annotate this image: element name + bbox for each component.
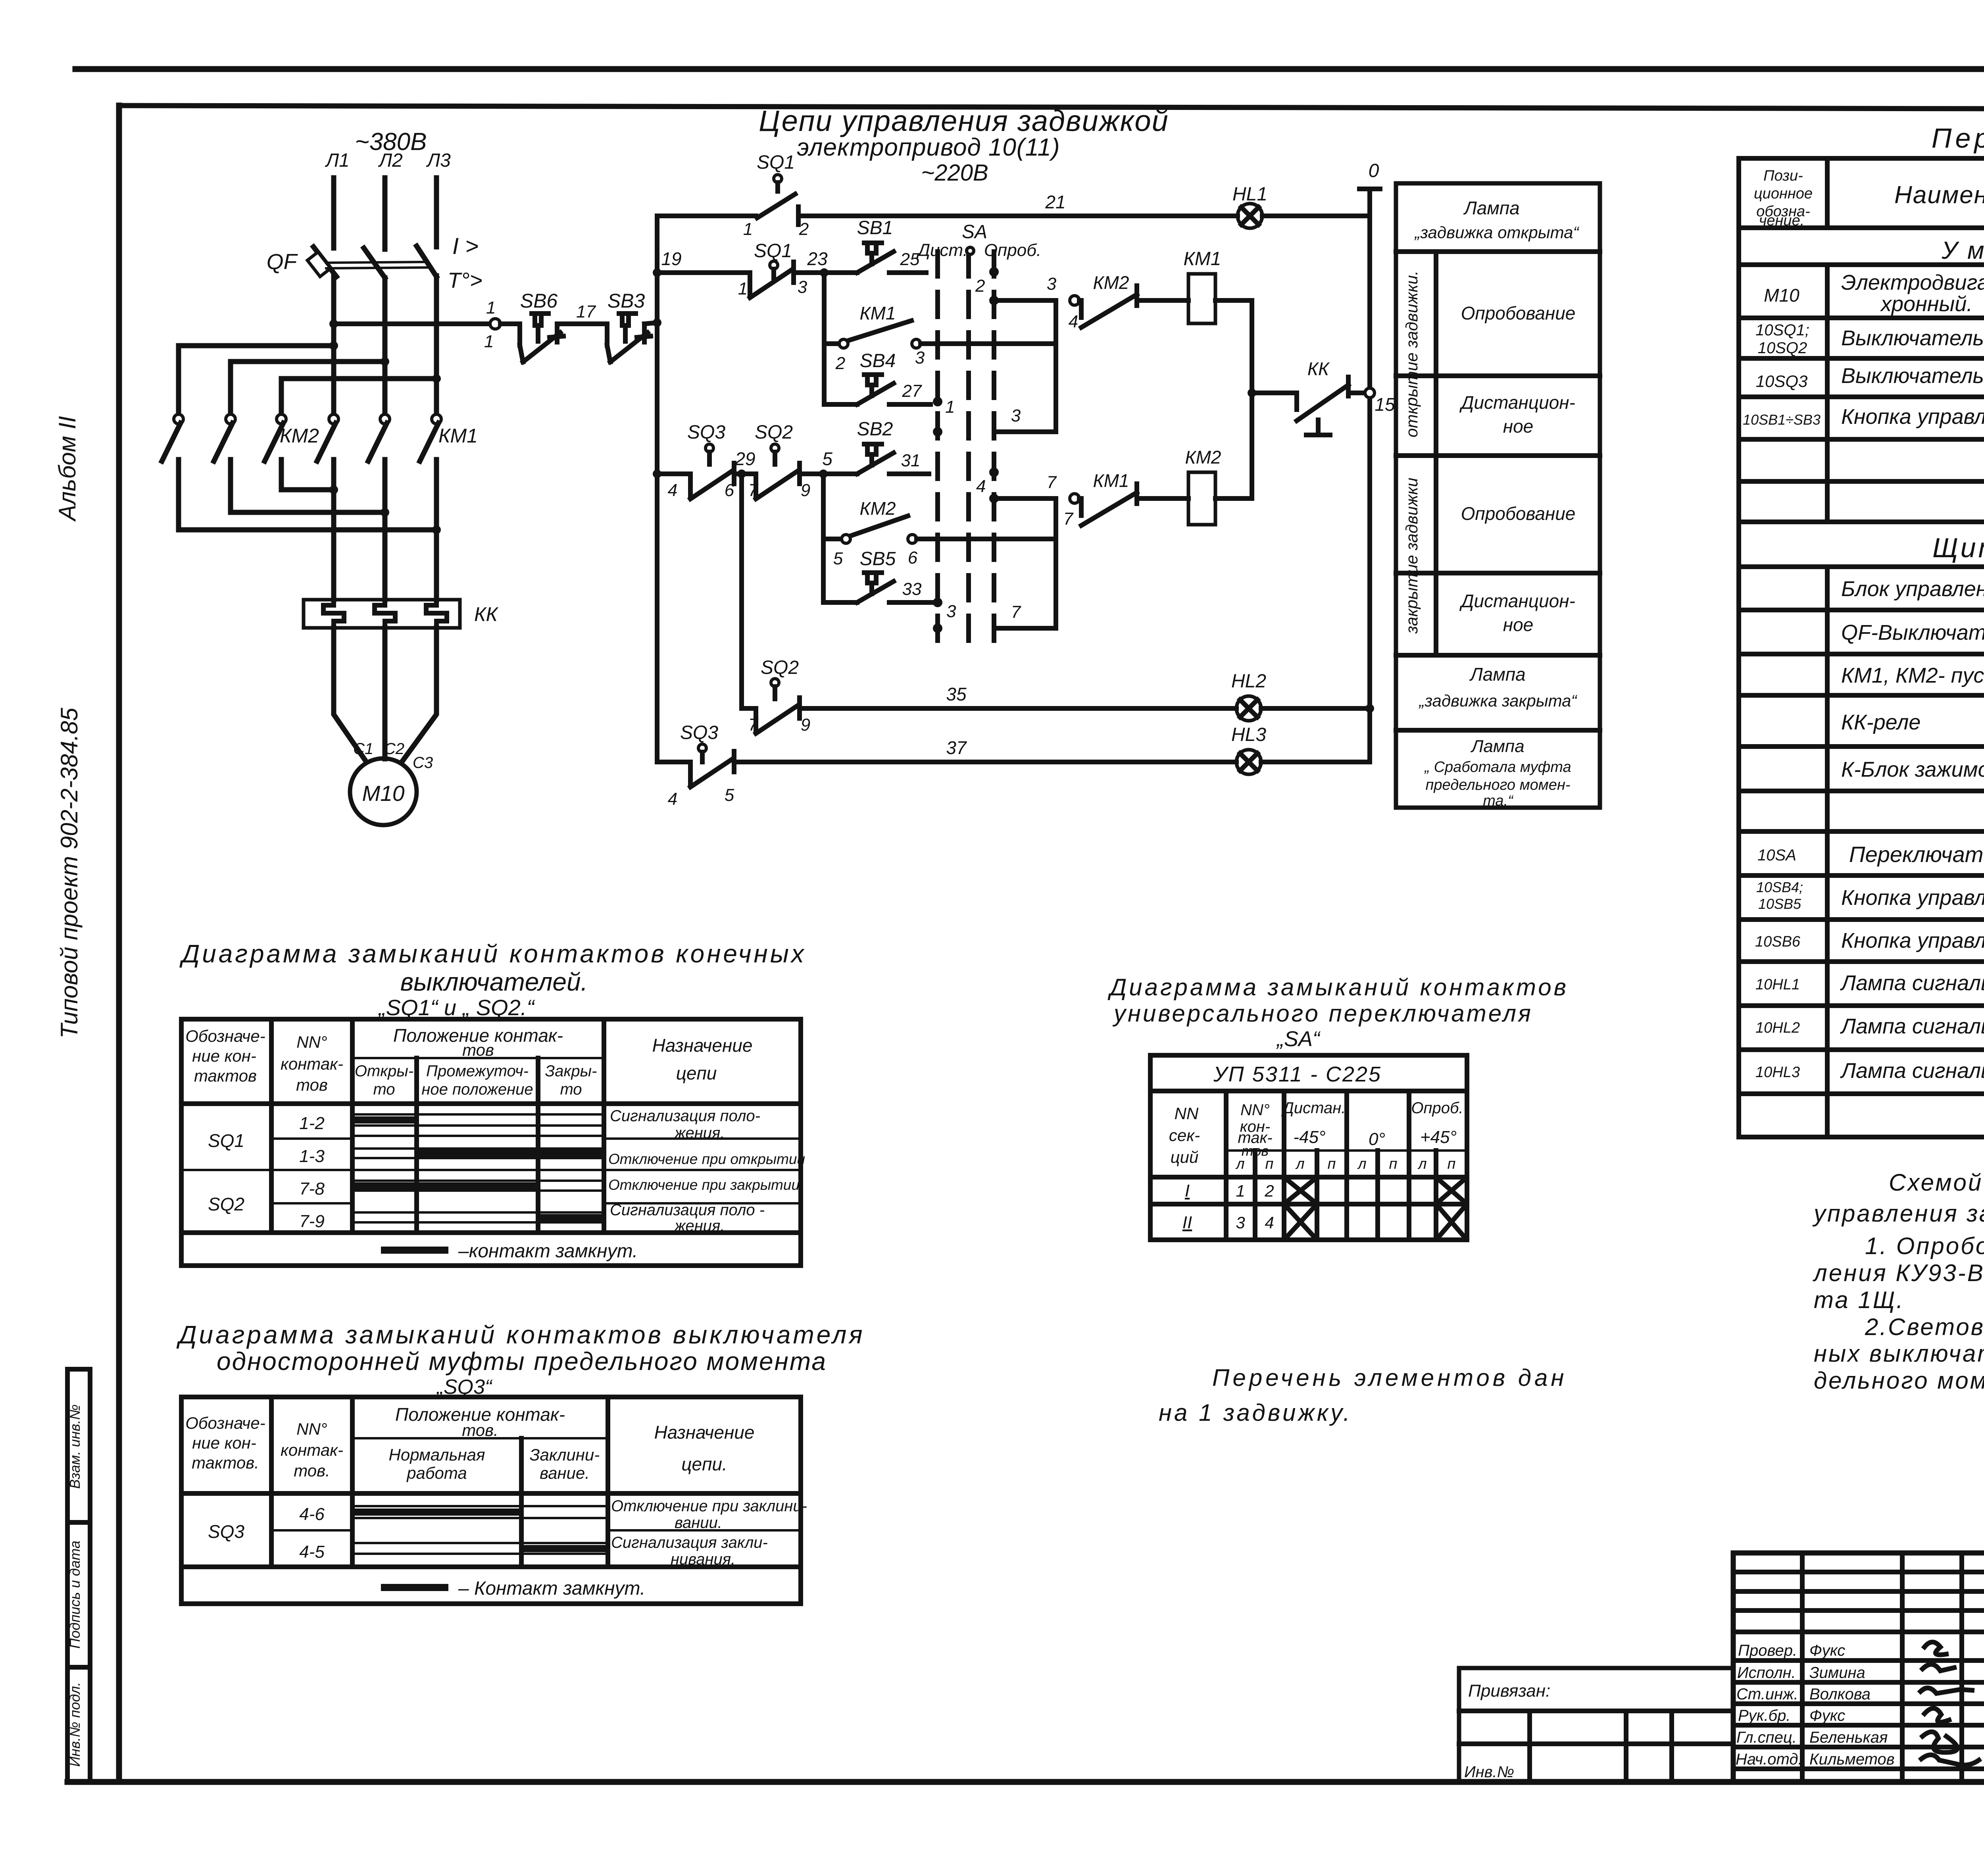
svg-text:10SQ1;: 10SQ1; [1755,321,1809,339]
svg-text:Привязан:: Привязан: [1468,1681,1550,1701]
node 1 terminal [490,319,500,329]
row KK rele [1841,710,1984,734]
limit switch SQ3 contact on wire 37 [657,744,734,787]
svg-text:„задвижка закрыта“: „задвижка закрыта“ [1418,691,1577,710]
svg-text:25: 25 [900,250,920,269]
header purpose [652,1035,753,1083]
header position [393,1025,563,1059]
svg-text:л: л [1295,1156,1304,1172]
cell lamp clutch [1424,737,1571,809]
svg-text:Альбом II: Альбом II [54,416,81,522]
svg-text:10HL3: 10HL3 [1755,1064,1800,1081]
stub wire 33 [889,600,933,605]
node 0 rail [1359,189,1380,762]
button SB2 [857,444,894,474]
riser KM2 pole2 [228,362,233,414]
wire 17 [557,321,607,326]
element table frame [1739,158,1984,1137]
svg-text:Типовой проект 902-2-384.85: Типовой проект 902-2-384.85 [56,708,83,1039]
svg-text:27: 27 [902,381,922,401]
subrow l p labels [1235,1156,1455,1172]
svg-text:„ Сработала муфта: „ Сработала муфта [1424,759,1571,775]
junction dots on left rail [653,268,661,277]
svg-text:работа: работа [406,1464,467,1482]
svg-text:3: 3 [798,277,807,297]
svg-text:2: 2 [975,276,985,296]
svg-text:чение.: чение. [1759,212,1805,229]
svg-text:С1: С1 [353,740,373,758]
svg-text:35: 35 [946,684,967,704]
closed bar 1-2 open [354,1116,416,1124]
row blok upravleniya [1841,571,1984,608]
svg-text:Наименование: Наименование [1894,181,1984,209]
svg-text:Заклини-: Заклини- [530,1445,600,1464]
cell remote 2 [1459,591,1575,635]
crossover wire b [231,510,385,515]
svg-text:КМ2: КМ2 [1093,272,1129,293]
svg-text:дельного момента задвижки.: дельного момента задвижки. [1814,1367,1984,1394]
svg-text:Диаграмма замыканий контакто: Диаграмма замыканий контактов [1107,974,1569,1001]
junction [1248,389,1256,397]
svg-text:Промежуточ-: Промежуточ- [426,1062,529,1080]
wire to coil KM1 [1137,298,1188,303]
wire 37 [734,760,1236,764]
svg-text:SQ2: SQ2 [755,422,793,443]
pin labels 4 5 [668,785,734,809]
top rail wire [657,214,756,218]
SA diagram title [1107,974,1569,1051]
wire below QF L1 [331,276,336,414]
cell lamp closed [1418,664,1577,710]
svg-text:Взам. инв.№: Взам. инв.№ [67,1405,83,1489]
vertical junction right of SA lower [1054,498,1058,628]
switch SA dashed column mid [966,252,971,647]
svg-text:вании.: вании. [675,1514,722,1532]
svg-text:Нормальная: Нормальная [389,1445,485,1464]
svg-text:-45°: -45° [1293,1128,1325,1147]
SA table frame [1150,1055,1467,1240]
svg-text:КМ2: КМ2 [859,498,896,519]
svg-text:Кильметов: Кильметов [1809,1751,1895,1768]
svg-text:М10: М10 [362,781,405,806]
svg-text:ных выключателей и выключате: ных выключателей и выключателя муфты пре… [1814,1340,1984,1367]
SA contact dots lower [933,468,999,633]
wire to KK [1252,391,1297,395]
svg-text:Беленькая: Беленькая [1809,1729,1888,1746]
row 10SB1-SB3 [1743,400,1984,437]
svg-text:Л3: Л3 [426,150,451,171]
svg-text:К-Блок зажимов: К-Блок зажимов [1841,758,1984,781]
svg-text:6: 6 [725,481,734,500]
svg-text:закрытие задвижки: закрытие задвижки [1402,478,1421,634]
svg-text:л: л [1357,1156,1366,1172]
grid thin lines row2 [352,1543,608,1554]
motor terminal labels C1 C2 C3 [353,740,433,772]
svg-text:КМ2: КМ2 [1185,447,1221,468]
header contact designation [185,1027,265,1085]
header purpose [654,1422,755,1474]
svg-text:универсального переключателя: универсального переключателя [1112,1000,1533,1027]
header -45 [1281,1099,1346,1147]
pin labels 7 9 5 [748,448,832,500]
switch SA dashed column oprob [992,252,996,647]
svg-text:КМ1: КМ1 [438,425,478,447]
junction [819,469,828,478]
signature grid horizontals [1733,1572,1984,1769]
left rail wire [655,216,659,762]
signature rows texts [1736,1642,1895,1768]
breaker QF linkage bar [326,262,427,268]
second rail wire [739,474,744,708]
terminal circle [1070,494,1079,503]
vertical from row29 junction [821,474,826,602]
contactor NC contact KM1 [1079,484,1137,525]
svg-text:QF: QF [267,249,298,274]
svg-text:7: 7 [1047,473,1057,492]
svg-text:3: 3 [915,348,925,368]
crossover wire c [179,527,436,533]
cell remote 1 [1459,392,1575,437]
wire to SB1 [794,270,857,275]
svg-text:КК: КК [1307,358,1330,379]
button SB4 [824,375,894,404]
svg-text:10SB6: 10SB6 [1755,933,1801,950]
svg-text:цепи.: цепи. [681,1454,727,1474]
closed bar 4-6 [354,1508,521,1516]
limit switch SQ2 contact 7-9 [756,444,800,499]
junction [329,341,338,350]
KM1 pole contact 2 [368,414,390,600]
vertical from node 23 [822,273,827,404]
svg-text:Электродвигатель асин-: Электродвигатель асин- [1841,271,1984,294]
svg-text:4: 4 [1265,1213,1274,1232]
svg-text:Нач.отд.: Нач.отд. [1736,1751,1803,1768]
svg-text:7: 7 [1011,602,1021,622]
svg-text:ное положение: ное положение [421,1081,533,1098]
svg-text:1. Опробование по месту кн: 1. Опробование по месту кнопкой управ- [1865,1233,1984,1259]
svg-text:тов: тов [1242,1143,1269,1159]
svg-text:Лампа сигнальная: Лампа сигнальная [1840,1059,1984,1083]
row K blok zazhimov [1841,751,1984,788]
svg-text:4: 4 [1069,312,1078,331]
svg-text:Опроб.: Опроб. [1411,1099,1463,1117]
stub wire 25 [889,270,926,275]
svg-text:Перечень элементов: Перечень элементов [1932,123,1984,154]
svg-text:3: 3 [1047,274,1057,294]
row 10HL2 [1755,1012,1984,1042]
svg-text:Откры-: Откры- [355,1062,413,1080]
svg-text:Назначение: Назначение [654,1422,755,1443]
header closed [545,1062,597,1098]
signature scribbles [1921,1642,1979,1765]
note perechen dan [1159,1364,1567,1426]
svg-text:М10: М10 [1764,285,1799,306]
header position designation [1754,167,1813,229]
stop button SB6 [500,314,563,362]
row 10SQ1 10SQ2 [1755,321,1984,357]
signature grid verticals [1802,1553,1984,1782]
coil KM2 return wire [1215,393,1252,498]
header position [395,1404,565,1439]
svg-text:Гл.спец.: Гл.спец. [1736,1729,1797,1746]
svg-text:нивания.: нивания. [671,1551,735,1568]
svg-text:Лампа: Лампа [1469,664,1526,685]
svg-text:23: 23 [807,248,828,269]
svg-text:Дистан.: Дистан. [1281,1099,1346,1117]
svg-text:Блок управления: Блок управления [1841,577,1984,601]
svg-text:Лампа сигнальная: Лампа сигнальная [1840,1014,1984,1038]
svg-text:7-8: 7-8 [299,1179,325,1199]
node 15 terminal [1365,388,1375,398]
wire row 29 [657,471,690,476]
wire to SB2 [800,471,857,476]
closed bar 7-8 [354,1182,537,1189]
svg-text:10HL2: 10HL2 [1755,1020,1800,1036]
row QF [1841,621,1984,645]
svg-text:тов: тов [296,1076,328,1094]
svg-text:10HL1: 10HL1 [1755,976,1800,993]
wire L1 drop [331,178,336,248]
svg-text:10SB5: 10SB5 [1758,896,1801,912]
wire 35 [800,706,1236,711]
svg-text:1: 1 [945,397,955,417]
svg-text:4: 4 [668,789,677,809]
contactor aux contact KM1 [824,321,921,348]
limit switch SQ1 contact 1-2 [757,175,798,225]
lamp HL3 [1236,750,1261,774]
svg-text:0: 0 [1369,160,1379,181]
motor feed wire 2 [383,628,388,759]
svg-text:Инв.№: Инв.№ [1464,1763,1514,1781]
wire below QF L2 [383,278,388,414]
wire L3 drop [434,178,439,247]
svg-text:Пози-: Пози- [1763,167,1803,184]
svg-text:то: то [560,1081,582,1098]
row KM1 KM2 [1841,659,1984,693]
motor M10 [350,758,417,825]
thermal relay contact KK [1297,377,1365,435]
svg-text:ное: ное [1503,614,1533,635]
svg-text:Кнопка управления: Кнопка управления [1841,405,1984,429]
privyazan block [1459,1668,1733,1782]
svg-text:Лампа: Лампа [1463,198,1520,218]
svg-text:ционное: ционное [1754,185,1813,202]
svg-text:1: 1 [738,279,748,298]
purpose signal pos 2 [610,1201,765,1235]
svg-text:10SB4;: 10SB4; [1756,879,1803,895]
svg-text:Отключение при открытии: Отключение при открытии [608,1151,805,1167]
svg-text:Щит 1шщ: Щит 1шщ [1932,532,1984,563]
svg-text:33: 33 [902,579,922,599]
svg-text:электропривод 10(11): электропривод 10(11) [797,134,1060,161]
KM2 pole contact 1 [162,414,183,530]
svg-text:– Контакт замкнут.: – Контакт замкнут. [458,1578,645,1599]
purpose off at jam [611,1497,807,1532]
svg-text:ние кон-: ние кон- [192,1047,256,1065]
bus wire KM2 pole1 [179,343,334,348]
diagram 2 title [176,1320,865,1399]
svg-text:Цепи управления задвижкой: Цепи управления задвижкой [759,104,1169,137]
svg-text:6: 6 [908,548,918,568]
svg-text:Волкова: Волкова [1809,1686,1871,1703]
page top border line [75,66,1984,72]
X mark row I -45 l [1285,1178,1316,1203]
closed bar 4-5 [523,1545,607,1552]
svg-text:0°: 0° [1369,1129,1385,1149]
svg-text:5: 5 [725,785,734,805]
svg-text:Сигнализация поло-: Сигнализация поло- [610,1107,760,1125]
svg-text:37: 37 [946,737,967,758]
svg-text:Лампа сигнальная: Лампа сигнальная [1840,971,1984,995]
svg-text:7: 7 [1063,509,1074,529]
limit switch SQ3 contact 4-6 [690,444,734,499]
svg-text:10SB1÷SB3: 10SB1÷SB3 [1743,412,1821,428]
svg-text:T°>: T°> [448,268,483,292]
header NN contacts [281,1033,343,1094]
svg-text:I >: I > [452,233,479,259]
KM2 pole contact 2 [214,414,235,512]
svg-text:Выключатель муфты: Выключатель муфты [1841,364,1984,388]
svg-text:SB5: SB5 [860,548,896,570]
wire KM2 aux to SA [917,537,1056,541]
svg-text:л: л [1235,1156,1244,1172]
svg-text:тактов: тактов [194,1066,257,1085]
svg-text:HL1: HL1 [1232,184,1267,205]
svg-text:SQ3: SQ3 [208,1521,244,1542]
svg-text:I: I [1185,1181,1190,1201]
limit switch SQ1 contact 1-3 [750,261,794,298]
breaker QF pole 1 [308,247,336,277]
svg-text:1: 1 [486,298,496,317]
svg-text:1: 1 [484,332,494,351]
breaker QF pole 3 [417,246,436,277]
svg-text:Сигнализация поло -: Сигнализация поло - [610,1201,765,1219]
row 10SQ3 [1756,364,1984,391]
svg-text:5: 5 [822,448,832,469]
purpose signal pos 1 [610,1107,760,1142]
grid thin lines row3 [352,1181,604,1191]
svg-text:2.Световая сигнализация поло: 2.Световая сигнализация положения конеч- [1865,1314,1984,1340]
svg-text:II: II [1182,1213,1192,1232]
drawing frame top line [119,106,1984,110]
svg-text:Дист.: Дист. [916,241,968,260]
legend contact closed [381,1578,645,1599]
svg-text:19: 19 [661,248,681,269]
diagram 2 table frame [181,1397,801,1604]
bus wire KM2 pole2 [231,359,385,364]
svg-text:Подпись и дата: Подпись и дата [67,1541,83,1649]
svg-text:HL2: HL2 [1231,671,1266,692]
riser KM2 pole1 [176,346,181,414]
stub wire 31 [889,471,929,476]
switch SA dashed column dist [935,252,940,647]
svg-text:Рук.бр.: Рук.бр. [1738,1707,1791,1724]
svg-text:QF-Выключатель: QF-Выключатель [1841,621,1984,645]
header NN contacts [281,1420,343,1480]
svg-text:1: 1 [743,219,753,239]
svg-text:SA: SA [962,221,987,242]
KM2 pole contact 3 [265,414,286,490]
coil KM1 return wire [1215,300,1252,393]
svg-text:п: п [1328,1156,1336,1172]
lamp function table frame [1396,183,1600,808]
svg-text:7: 7 [748,715,759,735]
stub 7 right [998,626,1056,631]
purpose signal jam [611,1534,768,1568]
svg-text:SB6: SB6 [520,290,558,312]
svg-text:10SQ3: 10SQ3 [1756,372,1808,391]
row 10HL3 [1755,1055,1984,1085]
header NN sections [1169,1104,1200,1166]
svg-text:п: п [1265,1156,1274,1172]
KK heater 3 [426,600,447,628]
svg-text:Л2: Л2 [378,150,403,171]
svg-text:9: 9 [801,715,810,735]
diagram 1 table frame [181,1019,801,1266]
svg-text:та 1Щ.: та 1Щ. [1814,1287,1905,1313]
wire SA to coil row lower [994,496,1056,501]
svg-text:КМ1, КМ2- пускатель: КМ1, КМ2- пускатель [1841,664,1984,687]
svg-text:УП 5311 - С225: УП 5311 - С225 [1213,1062,1382,1086]
grid thin lines row2 [352,1149,604,1158]
svg-text:п: п [1448,1156,1456,1172]
svg-text:NN°: NN° [296,1420,327,1438]
svg-text:ние кон-: ние кон- [192,1433,256,1452]
svg-text:Диаграмма замыканий контакто: Диаграмма замыканий контактов выключател… [176,1320,865,1349]
svg-text:10SA: 10SA [1757,847,1796,864]
breaker QF pole 2 [364,248,385,278]
X mark row II -45 l [1285,1205,1316,1239]
svg-text:КМ1: КМ1 [1184,248,1221,269]
stub wire 27 [889,402,930,407]
svg-text:SB2: SB2 [857,419,893,440]
svg-text:управления задвижкой 10 (1: управления задвижкой 10 (11) : [1812,1200,1984,1227]
SA pin labels 2 1 4 3 [945,276,986,621]
breaker QF trip labels I> T> [448,233,483,292]
svg-text:Л1: Л1 [325,150,350,171]
svg-text:Схемой предусматривается д: Схемой предусматривается два вида [1889,1169,1984,1196]
svg-text:+45°: +45° [1420,1128,1457,1147]
svg-text:Инв.№ подл.: Инв.№ подл. [67,1682,83,1766]
svg-text:2: 2 [799,219,809,239]
svg-text:КМ1: КМ1 [859,303,896,323]
svg-text:сек-: сек- [1169,1126,1200,1145]
pin labels 1 3 23 [738,248,828,298]
svg-text:тов.: тов. [294,1461,330,1480]
pin labels 1 2 [743,219,809,239]
svg-text:Обозначе-: Обозначе- [185,1414,265,1432]
svg-text:Зимина: Зимина [1809,1664,1865,1682]
svg-text:SQ3: SQ3 [687,422,725,443]
svg-text:SB3: SB3 [608,290,645,312]
wire HL1 to 0 rail [1262,214,1370,218]
legend contact closed [381,1241,638,1262]
svg-text:хронный.: хронный. [1880,292,1972,316]
svg-text:контак-: контак- [281,1054,343,1073]
pin labels 7 9 [748,715,810,735]
svg-text:4: 4 [976,477,986,496]
svg-text:4: 4 [668,481,677,500]
svg-text:SQ3: SQ3 [680,722,718,743]
svg-text:выключателей.: выключателей. [400,968,588,996]
svg-text:~220В: ~220В [921,160,988,186]
wire below QF L3 [434,276,439,414]
svg-text:Дистанцион-: Дистанцион- [1459,392,1575,413]
row 10SA [1757,834,1984,874]
wire 21 [799,214,1238,218]
KK heater 2 [375,600,395,628]
svg-text:3: 3 [946,602,956,621]
